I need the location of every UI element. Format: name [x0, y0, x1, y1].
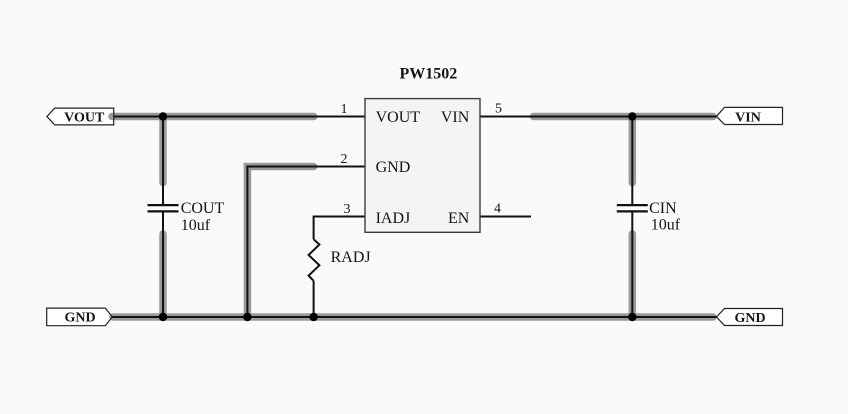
svg-text:2: 2: [341, 152, 348, 167]
svg-text:1: 1: [341, 102, 348, 117]
svg-text:VOUT: VOUT: [376, 109, 421, 126]
svg-text:PW1502: PW1502: [400, 66, 458, 83]
svg-text:CIN: CIN: [649, 200, 677, 217]
svg-text:GND: GND: [376, 159, 411, 176]
svg-text:IADJ: IADJ: [376, 210, 411, 227]
svg-text:4: 4: [494, 202, 501, 217]
svg-text:RADJ: RADJ: [331, 249, 371, 266]
svg-text:3: 3: [344, 202, 351, 217]
svg-text:5: 5: [495, 102, 502, 117]
svg-text:VIN: VIN: [441, 109, 470, 126]
svg-text:EN: EN: [448, 210, 470, 227]
svg-text:COUT: COUT: [181, 200, 225, 217]
svg-text:GND: GND: [734, 311, 765, 326]
svg-text:VOUT: VOUT: [64, 111, 105, 126]
svg-text:10uf: 10uf: [181, 217, 211, 234]
svg-text:VIN: VIN: [735, 110, 761, 125]
svg-text:GND: GND: [64, 311, 95, 326]
svg-text:10uf: 10uf: [651, 217, 681, 234]
